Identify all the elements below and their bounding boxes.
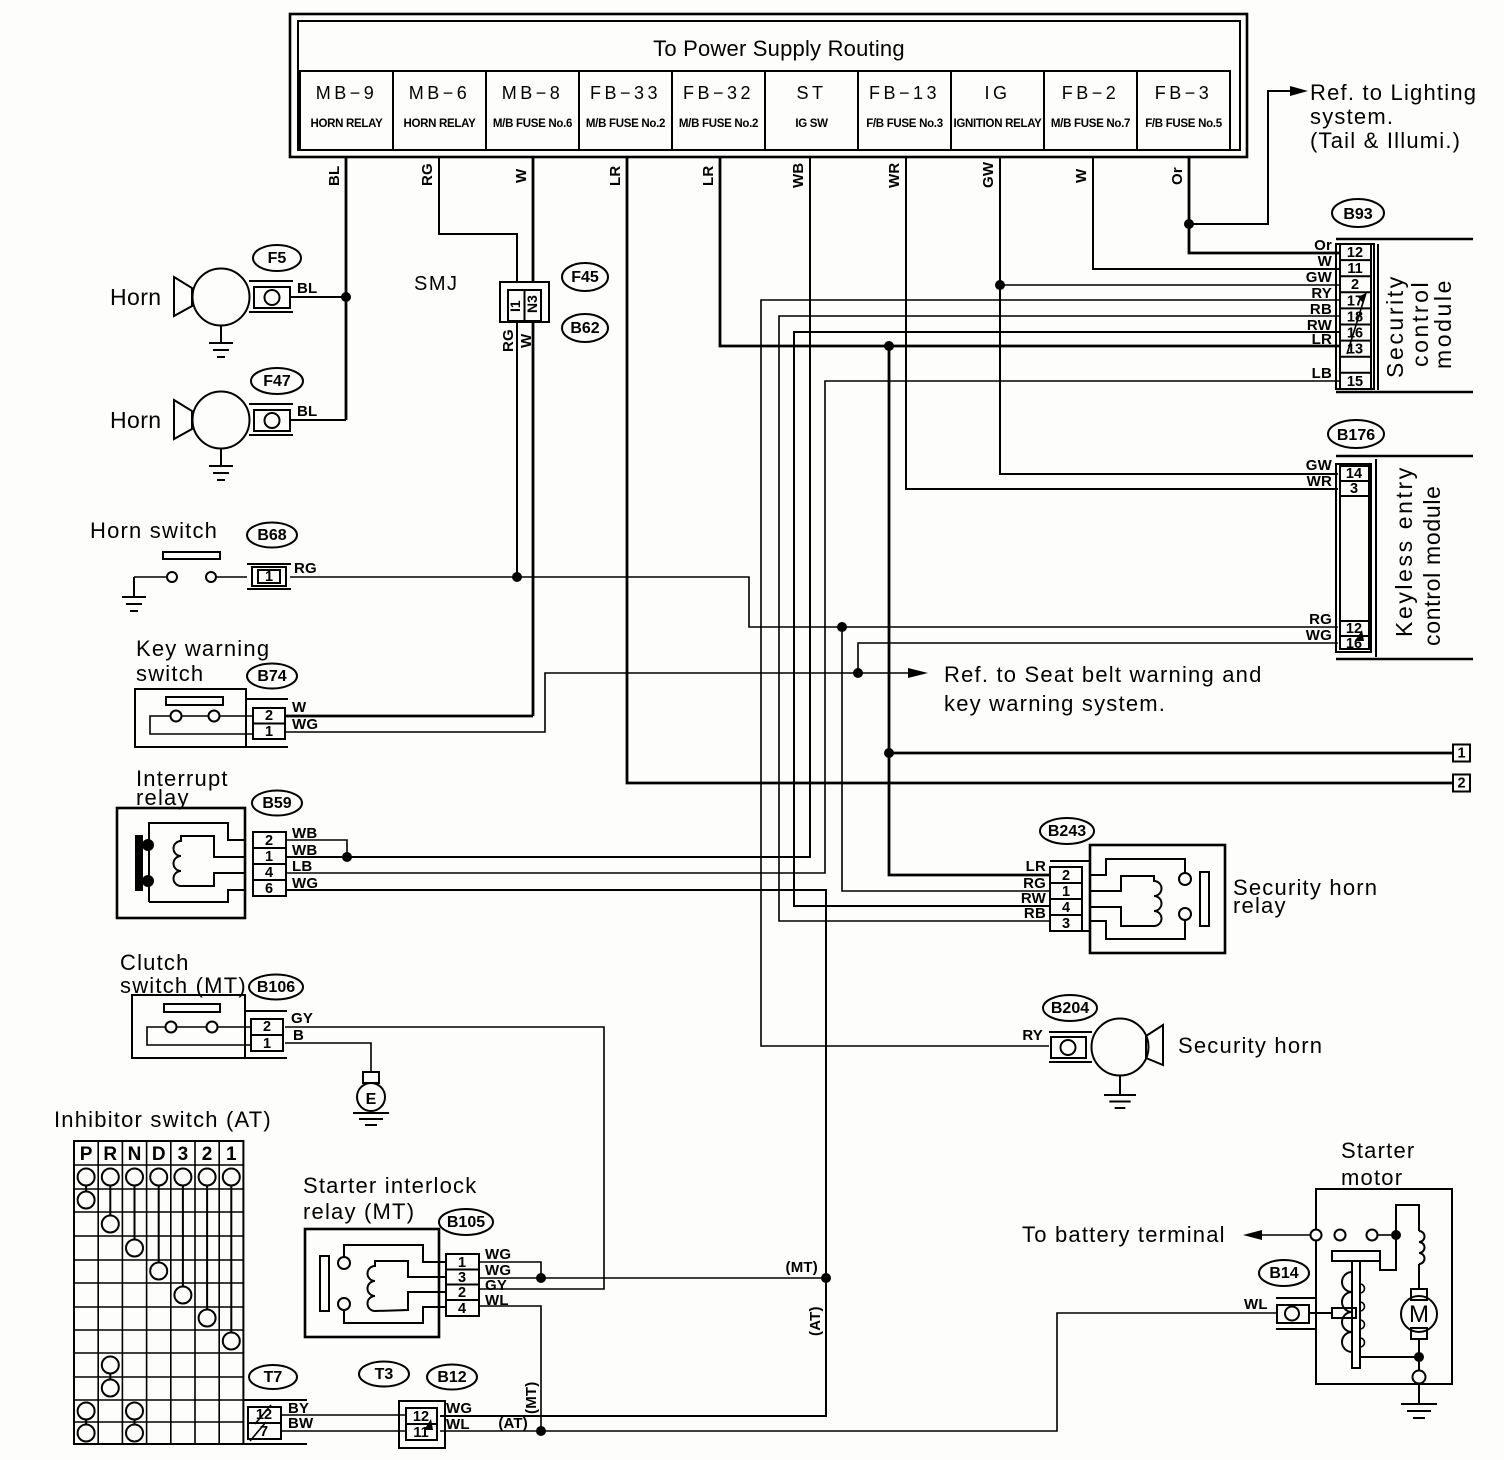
terminal box 2 [1453,775,1470,792]
svg-text:Key warning: Key warning [136,636,270,661]
svg-text:motor: motor [1341,1165,1403,1190]
svg-text:Ref. to Lighting: Ref. to Lighting [1310,80,1477,105]
oval B62 [562,314,608,342]
ground connector E [353,1072,389,1125]
svg-text:ST: ST [796,83,826,103]
svg-text:M/B FUSE No.6: M/B FUSE No.6 [493,118,572,130]
oval B74 [247,664,297,689]
svg-text:1: 1 [265,724,273,740]
fuse cell MB-6 [393,71,486,150]
connector B243 pins 2 1 4 3 [1050,861,1090,932]
svg-text:Starter interlock: Starter interlock [303,1173,477,1198]
connector T7 [243,1400,307,1444]
svg-text:RG: RG [419,163,436,186]
svg-text:3: 3 [178,1144,189,1165]
arrowhead to lighting ref [1290,86,1308,96]
ground security horn [1104,1076,1136,1109]
starter motor terminals [1311,1230,1402,1241]
svg-text:2: 2 [263,1019,271,1035]
svg-text:1: 1 [458,1255,466,1271]
svg-text:To Power Supply Routing: To Power Supply Routing [653,36,905,61]
svg-text:LB: LB [292,858,312,875]
svg-text:WR: WR [1307,473,1332,490]
oval B14 [1259,1260,1309,1286]
svg-text:F/B FUSE No.3: F/B FUSE No.3 [866,118,943,130]
svg-text:R: R [103,1144,117,1165]
wire BL from MB-9 to horns [345,157,348,420]
interrupt relay B59 [117,766,246,918]
connector B106 pins 2 1 [245,1011,287,1058]
svg-text:GW: GW [1306,269,1333,286]
inhibitor switch N column lower contacts [126,1403,143,1442]
node WL junction [536,1426,546,1436]
svg-text:Or: Or [1314,237,1332,254]
wire WG interrupt relay pin 6 to starter interlock net [287,890,826,1416]
node BL junction at horn F5 [341,292,351,302]
wire W from FB-2 to security control module pin 11 [1093,157,1340,269]
svg-text:2: 2 [1351,277,1359,293]
horn F47 [110,392,293,449]
svg-text:B106: B106 [257,979,295,996]
svg-text:14: 14 [1346,466,1362,482]
wire LR to terminal 1 [889,752,1453,755]
horn switch B68 [90,518,247,582]
svg-text:11: 11 [1347,261,1362,277]
wire RB security module pin 18 to security horn relay pin 3 [779,316,1340,921]
svg-text:F45: F45 [571,269,599,286]
wire WR from FB-13 to keyless entry module pin 3 [906,157,1338,489]
svg-text:RG: RG [500,329,517,352]
starter motor solenoid [1309,1251,1380,1368]
wire RG from MB-6 to SMJ [439,157,517,283]
svg-text:MB−8: MB−8 [502,83,564,103]
to battery terminal arrow [1022,1222,1310,1247]
svg-text:FB−3: FB−3 [1155,83,1213,103]
power supply routing box [290,14,1247,157]
svg-text:LB: LB [1312,365,1332,382]
starter motor solenoid path [1380,1235,1396,1270]
wire WL starter motor B14 to B12 pin 11 [440,1313,1277,1431]
svg-text:LR: LR [1026,858,1046,875]
inhibitor switch AT [54,1107,272,1132]
svg-text:2: 2 [265,833,273,849]
svg-text:N: N [128,1144,142,1165]
svg-text:M/B FUSE No.2: M/B FUSE No.2 [586,118,665,130]
svg-text:Clutch: Clutch [120,950,190,975]
svg-text:IG: IG [984,83,1010,103]
wire RG horn switch to keyless [290,577,1338,627]
starter motor [1316,1138,1452,1384]
oval B204 [1043,995,1097,1021]
wire LR down to security horn relay pin 2 [889,346,1050,875]
terminal box 1 [1453,745,1470,762]
svg-text:FB−33: FB−33 [590,83,661,103]
node LR branch down [884,341,894,351]
svg-text:B243: B243 [1048,823,1086,840]
wire RW security module pin 16 to security horn relay pin 4 [794,332,1340,906]
wire Or to lighting system ref [1189,91,1294,224]
svg-text:FB−2: FB−2 [1062,83,1120,103]
svg-text:RB: RB [1310,301,1332,318]
svg-text:B105: B105 [447,1214,485,1231]
wire Or from FB-3 [1188,157,1191,224]
svg-text:HORN RELAY: HORN RELAY [404,118,477,130]
keyless entry module text [1391,465,1445,646]
svg-text:W: W [513,168,530,183]
connector B74 pins 2 1 [246,699,288,747]
svg-text:1: 1 [1062,884,1070,900]
fuse cell FB-32 [672,71,765,150]
fuse cell FB-33 [579,71,672,150]
svg-text:M/B FUSE No.7: M/B FUSE No.7 [1051,118,1130,130]
svg-text:Starter: Starter [1341,1138,1415,1163]
wire inside starter motor [1360,1339,1426,1384]
fuse cell MB-8 [486,71,579,150]
wire LB security module pin 15 to interrupt relay pin 4 [287,381,1340,873]
svg-text:N3: N3 [524,295,540,313]
svg-text:LR: LR [1312,331,1332,348]
security horn B204 [1049,1019,1323,1076]
svg-text:B62: B62 [570,320,599,337]
svg-text:WB: WB [292,842,317,859]
svg-text:2: 2 [202,1144,213,1165]
connector B59 pins 2 1 4 6 [253,832,286,897]
oval T3 [359,1362,409,1387]
wire B clutch switch to ground E [285,1043,371,1072]
svg-text:Inhibitor switch (AT): Inhibitor switch (AT) [54,1107,272,1132]
svg-text:relay (MT): relay (MT) [303,1199,415,1224]
svg-text:F/B FUSE No.5: F/B FUSE No.5 [1145,118,1223,130]
inhibitor switch grid [74,1141,243,1444]
svg-text:GW: GW [1306,457,1333,474]
connector B14 [1276,1298,1316,1329]
oval F47 [251,368,303,394]
svg-text:WG: WG [1306,627,1332,644]
node WG junction to keyless module [853,668,863,678]
svg-text:B68: B68 [257,527,286,544]
oval F45 [562,263,608,291]
svg-text:MB−6: MB−6 [409,83,471,103]
wire GW down to keyless entry module pin 14 [1000,285,1338,474]
svg-text:Horn: Horn [110,407,161,433]
wire WG from key warning switch to seat belt ref arrow [286,673,910,732]
ground horn switch [122,577,146,611]
wire GY clutch switch to starter interlock relay pin 2 [285,1027,604,1289]
node GW junction [995,280,1005,290]
svg-text:WL: WL [485,1292,509,1309]
svg-text:4: 4 [1062,900,1070,916]
svg-text:I1: I1 [507,300,523,312]
svg-text:E: E [366,1091,377,1108]
svg-text:RG: RG [1309,611,1332,628]
svg-text:(AT): (AT) [498,1415,528,1432]
wire WB from ST to interrupt relay pin 1 [287,157,810,857]
keyless entry control module B176 [1336,456,1473,659]
svg-text:relay: relay [136,785,190,810]
svg-text:SMJ: SMJ [414,273,459,295]
oval B12 [427,1365,477,1390]
ground starter motor [1401,1384,1437,1419]
fuse cell MB-9 [300,71,393,150]
security control module B93 [1336,239,1473,392]
svg-text:B176: B176 [1337,427,1375,444]
svg-text:control module: control module [1419,485,1445,646]
svg-text:7: 7 [260,1424,268,1440]
svg-text:6: 6 [265,881,273,897]
svg-text:B14: B14 [1269,1265,1298,1282]
inhibitor switch position contacts [78,1186,240,1350]
oval B105 [439,1209,493,1235]
connector B68 pin 1 [247,564,291,589]
inhibitor switch R column lower contacts [102,1357,119,1397]
inhibitor switch P column lower contacts [78,1403,95,1442]
wire Or to security control module pin 12 [1189,224,1340,253]
svg-text:WG: WG [292,716,318,733]
svg-text:Ref. to Seat belt warning and: Ref. to Seat belt warning and [944,662,1263,687]
svg-text:Security horn: Security horn [1178,1033,1323,1058]
clutch switch B106 [120,950,251,1058]
arrowhead seat belt ref [908,668,928,678]
svg-text:W: W [1318,253,1333,270]
svg-text:D: D [152,1144,166,1165]
oval F5 [253,245,301,271]
oval B93 [1332,199,1384,227]
svg-text:B93: B93 [1343,206,1372,223]
svg-text:key warning system.: key warning system. [944,691,1166,716]
svg-text:12: 12 [1347,245,1363,261]
svg-text:BL: BL [326,166,343,186]
svg-text:(MT): (MT) [523,1382,540,1414]
svg-text:WG: WG [485,1246,511,1263]
wire WG interlock pin 1 jog [479,1262,541,1278]
security control module text [1382,274,1456,378]
svg-text:(MT): (MT) [786,1259,818,1276]
svg-text:HORN RELAY: HORN RELAY [311,118,384,130]
oval T7 [249,1365,297,1389]
svg-text:RB: RB [1024,905,1046,922]
svg-text:1: 1 [226,1144,237,1165]
svg-text:WB: WB [790,163,807,188]
svg-text:Or: Or [1169,167,1186,185]
svg-text:F5: F5 [268,250,287,267]
fuse cell IG [951,71,1044,150]
svg-text:RY: RY [1022,1027,1043,1044]
svg-text:15: 15 [1347,374,1363,390]
svg-text:2: 2 [458,1285,466,1301]
svg-text:W: W [292,699,307,716]
oval B243 [1040,818,1094,844]
svg-text:1: 1 [265,569,273,585]
svg-text:W: W [1073,168,1090,183]
svg-text:4: 4 [458,1301,466,1317]
svg-text:WG: WG [446,1400,472,1417]
inhibitor switch position letters [80,1144,237,1165]
svg-text:relay: relay [1233,893,1287,918]
node WG MT junction [821,1273,831,1283]
svg-text:3: 3 [1062,916,1070,932]
node WB junction [342,852,352,862]
SMJ connector [414,273,549,322]
ground horn F47 [209,449,233,481]
svg-text:B59: B59 [262,795,291,812]
node Or junction [1184,219,1194,229]
svg-text:GW: GW [980,161,997,188]
wire BL horn F5 stub [291,296,346,298]
svg-text:IGNITION RELAY: IGNITION RELAY [953,118,1042,130]
svg-text:M/B FUSE No.2: M/B FUSE No.2 [679,118,758,130]
svg-text:T3: T3 [375,1366,394,1383]
svg-text:FB−32: FB−32 [683,83,754,103]
svg-text:LR: LR [607,166,624,186]
starter motor field winding [1396,1205,1425,1289]
svg-text:2: 2 [265,708,273,724]
svg-text:WG: WG [292,875,318,892]
svg-text:BW: BW [288,1415,314,1432]
svg-text:Horn switch: Horn switch [90,518,218,543]
svg-text:3: 3 [1350,481,1358,497]
wire BL horn F47 stub [291,419,346,421]
oval B59 [252,791,302,816]
svg-text:11: 11 [413,1425,428,1441]
connector B93 pin rows [1340,244,1371,390]
starter interlock relay B105 [303,1173,477,1337]
svg-text:B: B [293,1027,304,1044]
node RG branch to security horn relay [837,622,847,632]
wire BW T7 pin 7 to B12 pin 11 [282,1430,406,1432]
svg-text:M: M [1409,1301,1429,1328]
oval B106 [249,975,303,1000]
svg-text:Security: Security [1382,274,1408,378]
svg-text:WB: WB [292,825,317,842]
svg-text:system.: system. [1310,104,1394,129]
svg-text:B74: B74 [257,668,286,685]
svg-text:1: 1 [1457,746,1465,762]
svg-text:RG: RG [294,560,317,577]
svg-text:module: module [1430,278,1456,369]
wire BY T7 pin 12 to B12 pin 12 [282,1414,406,1416]
svg-text:1: 1 [265,849,273,865]
svg-text:P: P [80,1144,93,1165]
svg-text:W: W [518,333,535,348]
svg-text:4: 4 [265,865,273,881]
svg-text:2: 2 [1062,868,1070,884]
svg-text:B12: B12 [437,1369,466,1386]
svg-text:switch: switch [136,661,204,686]
svg-text:MB−9: MB−9 [316,83,378,103]
svg-text:2: 2 [1457,776,1465,792]
wire LR from FB-33 to terminal 2 [627,157,1453,783]
svg-text:IG SW: IG SW [795,118,828,130]
wire RY security module pin 17 to security horn [761,300,1340,1046]
svg-text:B204: B204 [1051,1000,1089,1017]
horn F5 [110,269,293,326]
inhibitor switch common contacts row [78,1169,240,1186]
node RG junction at horn switch line [512,572,522,582]
wire WG up to keyless entry module pin 16 [858,643,1338,673]
wire LR from FB-32 to security control module pin 13 [720,157,1340,346]
svg-text:T7: T7 [264,1369,283,1386]
fuse cell ST [765,71,858,150]
svg-text:BL: BL [297,280,317,297]
wire WL starter interlock relay pin 4 [479,1306,541,1431]
key warning switch B74 [135,636,270,747]
svg-text:12: 12 [413,1409,429,1425]
svg-text:Horn: Horn [110,284,161,310]
svg-text:LR: LR [700,166,717,186]
ground horn F5 [209,326,233,358]
svg-text:3: 3 [458,1270,466,1286]
svg-text:1: 1 [263,1036,271,1052]
wire W from MB-8 through SMJ to key warning switch [532,157,535,283]
connector T3 B12 pins 12 11 [399,1401,445,1448]
svg-text:RY: RY [1311,285,1332,302]
svg-text:BL: BL [297,403,317,420]
svg-text:GY: GY [291,1010,313,1027]
svg-text:(Tail & Illumi.): (Tail & Illumi.) [1310,128,1461,153]
connector B105 pins 1 3 2 4 [446,1254,479,1317]
fuse cell FB-13 [858,71,951,150]
wire RG below SMJ to horn switch line [516,321,518,577]
svg-text:F47: F47 [263,373,291,390]
starter motor M motor [1401,1289,1437,1339]
wire RG down to security horn relay pin 1 [842,627,1050,891]
fuse cell FB-2 [1044,71,1137,150]
security horn relay B243 [1090,845,1378,953]
svg-text:WL: WL [1244,1296,1268,1313]
svg-text:WL: WL [446,1416,470,1433]
node WG interlock junction [536,1273,546,1283]
svg-text:(AT): (AT) [807,1306,824,1336]
wire GW from IG to security control module pin 2 [999,157,1001,285]
wire WG starter interlock relay pins 1 and 3 [479,1277,826,1279]
fuse cell FB-3 [1137,71,1230,150]
oval B68 [247,523,297,548]
svg-text:To battery terminal: To battery terminal [1022,1222,1226,1247]
oval B176 [1328,420,1384,448]
node LR branch to terminal 1 [884,748,894,758]
svg-text:WR: WR [886,163,903,188]
svg-text:FB−13: FB−13 [869,83,940,103]
svg-text:Keyless entry: Keyless entry [1391,465,1417,637]
wire WB interrupt relay pin 2 jog [287,840,347,857]
